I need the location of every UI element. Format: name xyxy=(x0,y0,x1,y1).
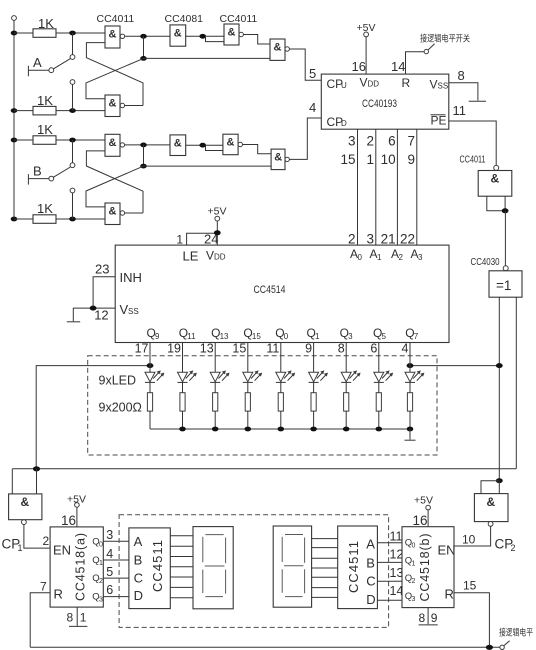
wire G3out down xyxy=(143,145,145,166)
node anode Q7 xyxy=(407,363,414,368)
svg-text:16: 16 xyxy=(352,59,366,74)
pins 8 9 ground (b) xyxy=(427,608,429,625)
svg-text:EN: EN xyxy=(53,543,71,558)
svg-text:14: 14 xyxy=(390,584,404,598)
svg-text:SS: SS xyxy=(438,82,449,91)
input terminal xyxy=(12,16,17,21)
nand gate U3a row1 inverter xyxy=(224,24,239,45)
svg-text:B: B xyxy=(33,164,42,179)
svg-text:4: 4 xyxy=(106,547,113,561)
wire R(b) to bottom rail xyxy=(454,593,489,648)
node R1-switch junction xyxy=(69,31,76,36)
node U7 input tie xyxy=(502,208,509,213)
svg-text:12: 12 xyxy=(94,308,108,323)
svg-text:接逻辑电平: 接逻辑电平 xyxy=(499,627,533,638)
svg-text:1: 1 xyxy=(99,560,103,567)
node R3-switch junction xyxy=(69,138,76,143)
wire G3 output xyxy=(125,144,170,146)
svg-text:6: 6 xyxy=(370,342,377,356)
LED D9 + resistor column Q7 xyxy=(405,342,424,429)
resistor R2 1K xyxy=(14,110,105,112)
svg-text:&: & xyxy=(21,495,30,509)
wire R pin to level switch xyxy=(406,52,425,74)
svg-text:14: 14 xyxy=(391,59,405,74)
wire pin8 to ground xyxy=(449,83,478,101)
wire tie to second input row1 xyxy=(206,36,225,41)
wire QbarA to row1 gate3 xyxy=(144,57,271,59)
LED D3 + resistor column Q13 xyxy=(210,342,229,429)
svg-text:7: 7 xyxy=(40,580,47,594)
wire latchA cross: G2 out to G1 input xyxy=(86,43,143,106)
svg-text:9: 9 xyxy=(431,611,438,625)
wire U9b out to EN (CP2) xyxy=(454,526,491,546)
svg-text:13: 13 xyxy=(200,342,214,356)
svg-text:接逻辑电平开关: 接逻辑电平开关 xyxy=(420,33,470,44)
svg-text:&: & xyxy=(109,98,117,110)
svg-text:B: B xyxy=(134,553,143,568)
svg-text:A: A xyxy=(366,537,375,552)
svg-text:CC4518(a): CC4518(a) xyxy=(74,533,88,601)
svg-text:10: 10 xyxy=(381,152,396,167)
display DS1 (left 7-segment) xyxy=(193,527,233,609)
wire VDD to +5V xyxy=(365,37,367,74)
decoder U12 CC4511 (right) xyxy=(338,526,378,609)
node anode Q9 xyxy=(147,363,154,368)
pin PE label xyxy=(431,114,446,116)
wire INH to Vss tie xyxy=(93,277,115,308)
svg-text:1K: 1K xyxy=(37,122,53,137)
svg-text:C: C xyxy=(366,574,375,589)
svg-text:CC4030: CC4030 xyxy=(471,257,500,268)
node cathode junctions xyxy=(179,427,186,432)
svg-text:+5V: +5V xyxy=(414,495,433,507)
svg-text:1: 1 xyxy=(315,332,320,341)
svg-text:9: 9 xyxy=(155,332,160,341)
svg-text:3: 3 xyxy=(412,596,416,603)
svg-text:11: 11 xyxy=(390,530,403,544)
svg-text:DD: DD xyxy=(368,80,380,89)
svg-text:6: 6 xyxy=(388,134,396,149)
svg-text:&: & xyxy=(274,152,282,164)
svg-text:CC4511: CC4511 xyxy=(346,541,361,593)
wire U9b inputs tie xyxy=(481,481,499,494)
dashed display box xyxy=(119,515,389,628)
svg-text:&: & xyxy=(228,27,236,39)
svg-text:&: & xyxy=(491,172,500,186)
svg-text:U: U xyxy=(341,81,347,90)
LED D2 + resistor column Q11 xyxy=(178,342,197,429)
svg-text:&: & xyxy=(109,137,117,149)
wire latchB cross: G4 out to G3 input xyxy=(86,151,143,213)
node G1 out xyxy=(140,34,147,39)
svg-text:&: & xyxy=(109,29,117,41)
svg-text:2: 2 xyxy=(43,534,50,548)
switch A xyxy=(28,33,72,111)
wires segments right display xyxy=(312,539,338,598)
wire QbarB to row2 gate3 xyxy=(144,165,272,167)
svg-text:4: 4 xyxy=(402,342,409,356)
svg-text:12: 12 xyxy=(390,548,404,562)
nand gate U9a (CP1 inverter) xyxy=(9,494,42,520)
wire U4b out to CPd pin4 xyxy=(289,118,321,159)
svg-text:11: 11 xyxy=(266,342,279,356)
node QbarB xyxy=(140,164,147,169)
power +5V (4514) xyxy=(215,216,220,221)
pins 8 1 ground (a) xyxy=(76,607,78,626)
nand gate U9b (CP2 inverter) xyxy=(474,494,508,522)
decoder U11 CC4511 (left) xyxy=(129,528,170,609)
svg-text:4: 4 xyxy=(309,100,316,115)
svg-text:1: 1 xyxy=(80,611,87,625)
svg-text:2: 2 xyxy=(412,578,416,585)
resistor R4 1K xyxy=(14,218,105,220)
wire latchB cross: Q to G4 input xyxy=(86,166,144,207)
wires 4511 to 4518(b) xyxy=(377,543,402,600)
svg-text:PE: PE xyxy=(431,114,447,128)
wire G2 output xyxy=(125,105,143,107)
svg-text:CC4081: CC4081 xyxy=(165,13,204,25)
wire left input rail xyxy=(13,20,15,219)
svg-text:D: D xyxy=(341,119,347,128)
svg-text:0: 0 xyxy=(284,332,289,341)
node rail-row4 xyxy=(11,217,18,222)
wire anode rail left (to XOR input B path) xyxy=(36,366,150,469)
svg-text:R: R xyxy=(402,76,411,90)
wire VDD to +5V (4514) xyxy=(216,221,218,245)
svg-text:&: & xyxy=(109,206,117,218)
svg-text:2: 2 xyxy=(511,543,516,553)
nand gate U3b row2 inverter xyxy=(223,134,238,155)
wire XOR input B (long run from Q9 side) xyxy=(515,297,517,469)
xor gate U8 =1 xyxy=(503,266,508,271)
wire U9a out to EN (CP1) xyxy=(24,525,50,549)
svg-text:&: & xyxy=(487,495,496,509)
wire gateA inputs from node xyxy=(12,469,36,494)
svg-text:23: 23 xyxy=(95,262,109,277)
svg-text:13: 13 xyxy=(220,332,229,341)
wire U2a out xyxy=(186,35,224,37)
node U2b out xyxy=(199,143,206,148)
svg-text:1: 1 xyxy=(412,561,416,568)
svg-text:CC4011: CC4011 xyxy=(97,13,135,25)
svg-text:V: V xyxy=(430,78,438,92)
svg-text:5: 5 xyxy=(382,332,387,341)
svg-text:2: 2 xyxy=(366,134,374,149)
node CP2 gate tie xyxy=(496,478,503,483)
svg-text:CC4518(b): CC4518(b) xyxy=(418,534,432,602)
node U2a out xyxy=(199,34,206,39)
node CP1 gate tie xyxy=(33,466,40,471)
display DS2 (right 7-segment) xyxy=(273,526,311,607)
svg-text:INH: INH xyxy=(120,270,142,285)
node INH-Vss xyxy=(90,306,97,311)
svg-text:0: 0 xyxy=(358,253,363,262)
svg-text:11: 11 xyxy=(453,103,467,118)
svg-text:7: 7 xyxy=(407,134,415,149)
svg-text:1: 1 xyxy=(366,152,374,167)
svg-text:2: 2 xyxy=(348,232,356,247)
nand gate U4b row2 xyxy=(271,149,285,170)
wire Vss tie to ground xyxy=(73,308,115,321)
ground (LED rail) xyxy=(409,429,411,440)
nand gate G3 (latch B upper) xyxy=(105,134,120,156)
wire U3b out to U4b xyxy=(243,145,272,154)
svg-text:16: 16 xyxy=(413,513,428,528)
wire bus line3 xyxy=(396,129,398,245)
svg-text:&: & xyxy=(174,138,182,150)
svg-text:9: 9 xyxy=(407,152,415,167)
svg-text:+5V: +5V xyxy=(208,206,227,218)
wire G1 output xyxy=(125,35,170,37)
wire U4a out to CPu pin5 xyxy=(289,49,321,80)
svg-text:CC4011: CC4011 xyxy=(460,155,486,166)
node R2-switch junction xyxy=(69,108,76,113)
svg-text:A: A xyxy=(134,534,143,549)
counter U5 CC40193 xyxy=(321,74,449,129)
svg-text:EN: EN xyxy=(438,543,456,558)
node LE-VDD xyxy=(214,230,221,235)
ground (4514) xyxy=(67,321,80,323)
svg-text:15: 15 xyxy=(463,579,477,593)
svg-text:B: B xyxy=(366,556,375,571)
svg-text:15: 15 xyxy=(340,152,355,167)
ground (pin8) xyxy=(469,100,486,102)
svg-text:&: & xyxy=(227,137,235,149)
svg-text:9: 9 xyxy=(305,342,312,356)
svg-text:V: V xyxy=(360,76,368,90)
svg-text:1: 1 xyxy=(176,233,183,247)
svg-text:R: R xyxy=(445,587,454,602)
LED D6 + resistor column Q1 xyxy=(309,342,328,429)
node rail-row1 xyxy=(11,31,18,36)
dashed LED box xyxy=(88,356,437,455)
wire U2b out xyxy=(186,144,223,146)
switch logic-level (R) xyxy=(424,49,428,53)
svg-text:2: 2 xyxy=(99,578,103,585)
svg-text:8: 8 xyxy=(67,611,74,625)
counter U13 CC4518(b) xyxy=(402,527,454,608)
svg-text:LE: LE xyxy=(183,249,199,264)
svg-text:3: 3 xyxy=(348,332,353,341)
node rail-row3 xyxy=(11,138,18,143)
svg-text:CC4514: CC4514 xyxy=(254,284,286,296)
svg-text:CC4011: CC4011 xyxy=(220,13,258,25)
LED D4 + resistor column Q15 xyxy=(243,342,262,429)
node XOR inputA - anode rail xyxy=(496,363,503,368)
svg-text:SS: SS xyxy=(128,307,139,316)
svg-text:3: 3 xyxy=(366,232,374,247)
LED D8 + resistor column Q5 xyxy=(374,342,393,429)
nand gate G2 (latch A lower) xyxy=(105,95,120,117)
wire cathode rail xyxy=(150,428,410,430)
wire U7 tied inputs xyxy=(487,196,505,211)
wire bottom rail xyxy=(30,646,500,648)
svg-text:3: 3 xyxy=(418,253,423,262)
svg-text:D: D xyxy=(134,588,143,603)
nand gate G4 (latch B lower) xyxy=(105,203,120,225)
wire U7 input from XOR output xyxy=(504,211,506,266)
nand gate U7 (PE inverter) xyxy=(494,165,499,170)
svg-text:19: 19 xyxy=(167,342,181,356)
svg-text:8: 8 xyxy=(338,342,345,356)
switch B xyxy=(28,140,72,219)
svg-text:8: 8 xyxy=(419,611,426,625)
wire G1out down to Qbar node xyxy=(143,36,145,58)
wires segments left display xyxy=(170,536,193,598)
node QbarA xyxy=(140,56,147,61)
LED D7 + resistor column Q3 xyxy=(341,342,360,429)
svg-text:DD: DD xyxy=(214,253,226,262)
switch logic-level (bottom) xyxy=(500,645,504,649)
svg-text:&: & xyxy=(274,42,282,54)
wire tie to second input row2 xyxy=(206,145,223,150)
svg-text:2: 2 xyxy=(399,253,404,262)
svg-text:9xLED: 9xLED xyxy=(99,374,137,388)
svg-text:15: 15 xyxy=(232,342,246,356)
LED D5 + resistor column Q0 xyxy=(276,342,295,429)
svg-text:R: R xyxy=(54,587,63,602)
wires Q0-Q3 (a) to 4511 xyxy=(103,541,129,596)
svg-text:10: 10 xyxy=(462,533,476,547)
nand gate U4a row1 xyxy=(270,39,285,60)
counter U10 CC4518(a) xyxy=(50,527,103,607)
svg-text:21: 21 xyxy=(381,232,396,247)
svg-text:0: 0 xyxy=(412,543,416,550)
svg-text:+5V: +5V xyxy=(67,494,86,506)
wire long horizontal CP1-side to XOR xyxy=(12,468,516,470)
svg-text:3: 3 xyxy=(99,596,103,603)
wire latchA cross: Q to G2 input xyxy=(86,58,144,98)
nand gate G1 (latch A upper) xyxy=(105,26,120,48)
wire XOR input A (from Q7 anode rail) xyxy=(498,297,500,481)
resistor R1 1K xyxy=(14,32,105,34)
wire LE up to VDD node xyxy=(187,233,218,245)
svg-text:D: D xyxy=(366,592,375,607)
svg-text:5: 5 xyxy=(106,565,113,579)
svg-text:1K: 1K xyxy=(38,16,54,31)
svg-text:7: 7 xyxy=(414,332,419,341)
wire G4 output xyxy=(125,212,143,214)
svg-text:17: 17 xyxy=(135,342,149,356)
resistor R3 1K xyxy=(14,139,105,141)
LED D1 + resistor column Q9 xyxy=(145,342,164,429)
svg-text:3: 3 xyxy=(106,528,113,542)
wire Q1out/A0 bus line1 xyxy=(357,129,359,245)
svg-text:=1: =1 xyxy=(496,278,511,293)
node R4-switch junction xyxy=(69,217,76,222)
node G3 out xyxy=(140,143,147,148)
wire anode rail right (to XOR input A) xyxy=(410,365,499,367)
svg-text:C: C xyxy=(134,570,143,585)
svg-text:15: 15 xyxy=(252,332,261,341)
decoder U6 CC4514 xyxy=(115,245,449,342)
svg-text:0: 0 xyxy=(99,542,103,549)
svg-text:9x200Ω: 9x200Ω xyxy=(99,401,142,415)
wire bus line2 xyxy=(375,129,377,245)
svg-text:5: 5 xyxy=(309,66,316,81)
node bottom rail R(b) xyxy=(486,645,493,650)
and gate U2a CC4081 row1 xyxy=(170,25,186,46)
svg-text:16: 16 xyxy=(61,513,76,528)
wire U3a out to U4a xyxy=(243,35,270,45)
svg-text:A: A xyxy=(33,55,42,70)
svg-text:11: 11 xyxy=(187,332,196,341)
svg-text:22: 22 xyxy=(400,232,415,247)
svg-text:6: 6 xyxy=(106,583,113,597)
wire bus line4 xyxy=(416,129,418,245)
svg-text:8: 8 xyxy=(458,68,465,83)
node rail-row2 xyxy=(11,108,18,113)
svg-text:3: 3 xyxy=(348,134,356,149)
svg-text:1: 1 xyxy=(18,543,23,553)
svg-text:1K: 1K xyxy=(37,93,53,108)
svg-text:V: V xyxy=(206,249,214,263)
svg-text:CC40193: CC40193 xyxy=(362,98,397,110)
svg-text:CC4511: CC4511 xyxy=(150,540,165,592)
wire R(a) to bottom rail xyxy=(30,593,50,648)
svg-text:1K: 1K xyxy=(37,201,53,216)
wire PE to inverter xyxy=(449,121,496,165)
and gate U2b CC4081 row2 xyxy=(170,135,186,156)
svg-text:&: & xyxy=(174,28,182,40)
svg-text:13: 13 xyxy=(390,566,404,580)
svg-text:1: 1 xyxy=(377,253,382,262)
